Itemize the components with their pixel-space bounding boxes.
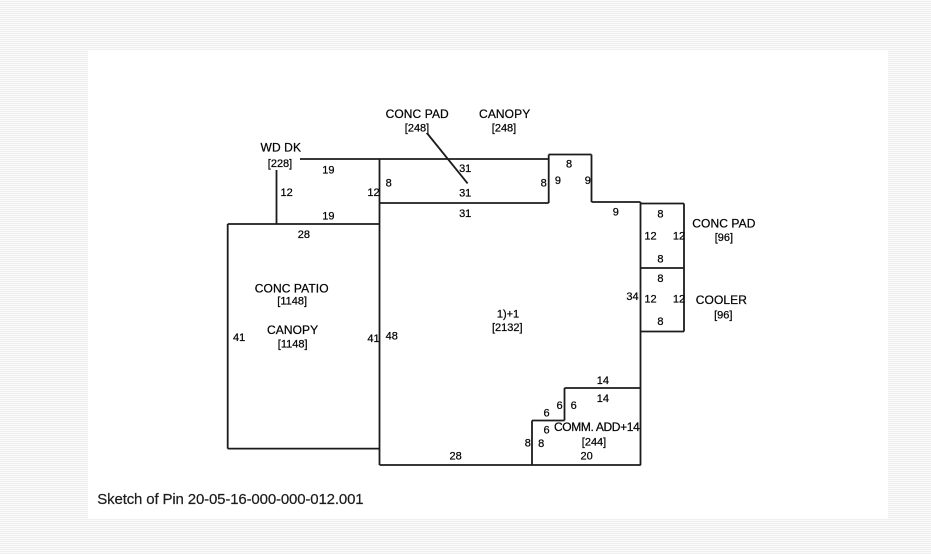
- wire bump right: [591, 155, 593, 203]
- svg-text:8: 8: [541, 178, 547, 190]
- svg-text:6: 6: [571, 400, 577, 412]
- svg-text:12: 12: [367, 187, 379, 199]
- svg-text:[228]: [228]: [268, 158, 292, 170]
- svg-text:12: 12: [644, 293, 656, 305]
- svg-text:41: 41: [233, 332, 245, 344]
- svg-text:12: 12: [280, 187, 292, 199]
- svg-text:6: 6: [544, 407, 550, 419]
- wire bottom edge: [380, 464, 641, 466]
- svg-text:[96]: [96]: [714, 310, 732, 322]
- wire patio top / deck bottom: [228, 223, 380, 225]
- wire comm add step vertical: [564, 388, 566, 421]
- svg-text:CANOPY: CANOPY: [479, 107, 530, 121]
- wire conc pad box top: [641, 203, 685, 205]
- svg-text:[2132]: [2132]: [492, 322, 523, 334]
- svg-text:31: 31: [459, 187, 471, 199]
- wire patio left wall: [227, 224, 229, 449]
- svg-text:[248]: [248]: [492, 123, 516, 135]
- sketch canvas: [88, 50, 888, 519]
- svg-text:[248]: [248]: [405, 123, 429, 135]
- svg-text:8: 8: [525, 437, 531, 449]
- svg-text:14: 14: [597, 375, 609, 387]
- svg-text:41: 41: [367, 333, 379, 345]
- wire comm add step horizontal: [532, 420, 565, 422]
- svg-text:9: 9: [585, 175, 591, 187]
- wire conc pad/cooler right: [683, 204, 685, 332]
- svg-text:[1148]: [1148]: [278, 338, 308, 350]
- wire patio bottom: [228, 448, 380, 450]
- wire conc pad/cooler divider: [641, 267, 685, 269]
- svg-text:6: 6: [557, 400, 563, 412]
- svg-text:CONC PAD: CONC PAD: [692, 217, 755, 231]
- svg-text:19: 19: [322, 164, 334, 176]
- svg-text:WD DK: WD DK: [261, 141, 302, 155]
- svg-text:CONC PATIO: CONC PATIO: [255, 281, 329, 295]
- svg-text:8: 8: [657, 273, 663, 285]
- wire left wall main+patio shared vertical: [379, 159, 381, 465]
- svg-text:COOLER: COOLER: [696, 293, 748, 307]
- svg-text:28: 28: [298, 229, 310, 241]
- svg-text:34: 34: [626, 291, 638, 303]
- svg-text:31: 31: [459, 208, 471, 220]
- svg-text:8: 8: [538, 438, 544, 450]
- svg-text:9: 9: [613, 207, 619, 219]
- svg-text:9: 9: [555, 175, 561, 187]
- wire comm add left wall: [531, 421, 533, 466]
- svg-text:28: 28: [449, 451, 461, 463]
- svg-text:8: 8: [566, 158, 572, 170]
- wire bump left: [548, 155, 550, 204]
- svg-text:COMM. ADD+14: COMM. ADD+14: [554, 420, 640, 434]
- svg-text:8: 8: [386, 178, 392, 190]
- wire comm add top: [565, 387, 641, 389]
- svg-text:CONC PAD: CONC PAD: [386, 107, 449, 121]
- wire bump top: [549, 154, 592, 156]
- svg-text:8: 8: [657, 316, 663, 328]
- svg-text:12: 12: [673, 293, 685, 305]
- svg-text:CANOPY: CANOPY: [267, 323, 318, 337]
- svg-text:12: 12: [644, 230, 656, 242]
- svg-text:Sketch of Pin 20-05-16-000-000: Sketch of Pin 20-05-16-000-000-012.001: [97, 491, 363, 508]
- svg-text:[96]: [96]: [715, 232, 733, 244]
- wire right wall: [640, 202, 642, 465]
- wire wd dk left wall: [276, 170, 278, 224]
- svg-text:14: 14: [597, 393, 609, 405]
- wire strip bottom / main top: [380, 202, 549, 204]
- svg-text:[1148]: [1148]: [277, 296, 307, 308]
- svg-text:6: 6: [544, 425, 550, 437]
- svg-text:8: 8: [657, 254, 663, 266]
- wire top edge strip + wd dk: [300, 158, 549, 160]
- svg-text:31: 31: [459, 163, 471, 175]
- wire leader conc pad: [427, 134, 467, 184]
- wire cooler bottom: [641, 331, 685, 333]
- svg-text:8: 8: [657, 208, 663, 220]
- svg-text:48: 48: [386, 330, 398, 342]
- svg-text:19: 19: [322, 211, 334, 223]
- svg-text:12: 12: [673, 230, 685, 242]
- svg-text:[244]: [244]: [582, 437, 606, 449]
- wire step to right wall: [592, 201, 641, 203]
- svg-text:20: 20: [580, 451, 592, 463]
- svg-text:1)+1: 1)+1: [497, 308, 519, 320]
